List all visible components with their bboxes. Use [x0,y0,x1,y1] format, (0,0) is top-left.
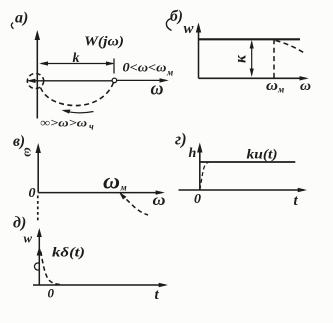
v) dashed phase curve with arrowhead [119,192,148,215]
svg-text:а): а) [15,10,28,27]
a) inf>w>w_y label [40,116,94,132]
subplot label а) [11,10,28,29]
d) dashed upper axis segment with arrow [37,196,39,222]
d) small dashed hook [35,263,40,270]
svg-text:ku(t): ku(t) [247,147,278,162]
v) vertical axis [36,143,41,193]
svg-text:м: м [166,68,173,78]
a) k dimension arrow [39,59,114,74]
d) horizontal axis [33,283,168,287]
a) dashed circle at origin of hodograph [27,74,43,89]
d) dashed decay curve [41,252,63,285]
svg-text:м: м [277,85,284,95]
a) 0<w<wm label [123,60,174,78]
svg-text:м: м [120,183,127,193]
svg-text:б): б) [170,8,183,25]
a) vertical axis [35,30,40,119]
b) dashed falloff curve [276,41,306,54]
svg-text:h: h [189,146,197,161]
g) horizontal axis [179,188,308,192]
svg-text:ч: ч [89,122,94,132]
svg-text:ω: ω [151,80,164,100]
b) constant amplitude line [199,38,301,40]
a) omega axis [117,78,169,82]
v) horizontal axis [38,190,165,194]
svg-text:д): д) [13,215,26,232]
subplot label б) [166,8,183,31]
svg-text:г): г) [175,130,187,149]
svg-text:w: w [184,21,195,37]
a) real axis with left arrow [27,79,113,83]
svg-text:w: w [24,231,33,246]
svg-text:k: k [73,51,80,66]
svg-text:W(jω): W(jω) [84,35,124,50]
svg-text:kδ(t): kδ(t) [52,245,85,260]
b) k double arrow [250,40,254,77]
v) wm label [103,169,127,194]
d) w axis lower with arrow [37,228,42,285]
b) horizontal axis [199,76,309,80]
g) step level line [200,161,295,163]
svg-text:ω: ω [22,148,37,157]
b) dashed vertical at wm [273,39,275,78]
svg-text:∞>ω>ω: ∞>ω>ω [40,116,87,130]
a) node point circle [112,78,117,83]
b) wm label [266,78,284,95]
svg-text:к: к [233,54,250,63]
svg-text:ω: ω [300,79,311,94]
svg-text:0: 0 [194,192,201,207]
a) dashed hodograph loop [41,83,114,106]
svg-text:0: 0 [29,186,36,201]
svg-text:ω: ω [153,192,166,209]
g) vertical axis [197,143,202,191]
d) impulse bold arrowhead [37,247,43,256]
svg-text:ω: ω [103,169,120,194]
svg-text:0: 0 [48,286,55,301]
b) vertical axis [196,23,201,79]
a) direction arrow on loop [62,110,94,114]
g) dashed rise curve [200,162,209,189]
svg-text:0<ω<ω: 0<ω<ω [123,60,167,75]
svg-text:ω: ω [266,78,278,94]
